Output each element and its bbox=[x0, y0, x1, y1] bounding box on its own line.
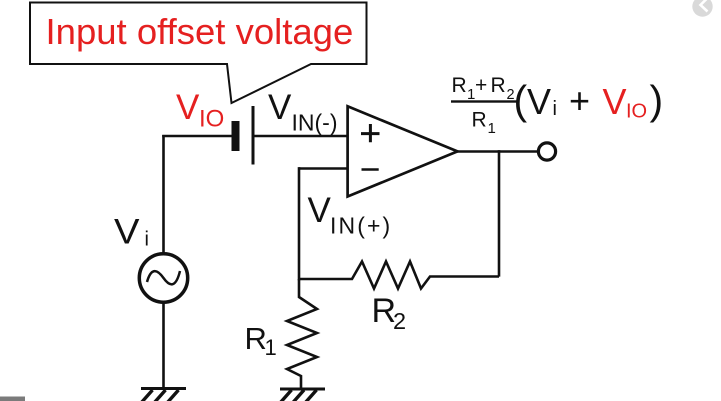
svg-text:+: + bbox=[569, 80, 590, 121]
svg-text:i: i bbox=[553, 98, 557, 120]
svg-text:): ) bbox=[650, 77, 664, 123]
ground under Vi bbox=[141, 389, 186, 401]
wire: left horizontal from Vi branch to battery bbox=[162, 135, 231, 138]
label R2 bbox=[372, 292, 407, 334]
svg-text:IO: IO bbox=[199, 106, 224, 133]
formula: (R1+R2)/R1 (Vi + VIO) bbox=[451, 74, 663, 137]
label VIN(-) bbox=[268, 88, 337, 136]
wire: left vertical down to Vi source bbox=[162, 135, 165, 253]
battery VIO (offset voltage source) bbox=[232, 106, 255, 165]
svg-text:i: i bbox=[145, 229, 149, 251]
wire: inverting input vertical down to node bbox=[298, 167, 301, 280]
wire: feedback vertical bbox=[498, 150, 501, 277]
svg-text:+: + bbox=[475, 74, 487, 97]
svg-text:R: R bbox=[472, 109, 487, 132]
label Vi bbox=[114, 213, 149, 252]
resistor R2 bbox=[299, 262, 499, 289]
svg-text:(: ( bbox=[514, 77, 528, 123]
svg-text:IN(-): IN(-) bbox=[292, 110, 338, 136]
label: Input offset voltage bbox=[46, 11, 354, 52]
wire: inverting input horizontal bbox=[299, 167, 347, 170]
ground under R1 bbox=[280, 389, 325, 401]
source Vi (sine source) bbox=[139, 254, 187, 302]
resistor R1 bbox=[287, 279, 317, 389]
svg-text:Input offset voltage: Input offset voltage bbox=[46, 11, 354, 52]
svg-text:V: V bbox=[527, 81, 551, 122]
wire: op-amp output bbox=[457, 150, 538, 153]
svg-text:2: 2 bbox=[393, 308, 406, 334]
svg-text:1: 1 bbox=[265, 335, 277, 360]
speech bubble callout bbox=[30, 3, 367, 104]
svg-text:R: R bbox=[452, 74, 467, 97]
svg-text:IO: IO bbox=[626, 101, 647, 123]
op-amp U1 bbox=[348, 106, 458, 196]
svg-text:R: R bbox=[491, 74, 506, 97]
label VIO bbox=[176, 88, 224, 133]
svg-text:V: V bbox=[308, 191, 332, 230]
svg-text:V: V bbox=[268, 88, 292, 127]
nav button (top right) bbox=[692, 0, 712, 17]
svg-text:V: V bbox=[114, 213, 140, 252]
wire: battery to op-amp + input bbox=[255, 135, 348, 138]
svg-text:V: V bbox=[176, 88, 200, 127]
wire: Vi source to ground bbox=[162, 303, 165, 388]
output terminal bbox=[538, 143, 555, 160]
label R1 bbox=[245, 321, 277, 360]
svg-text:V: V bbox=[603, 81, 627, 122]
progress marker (bottom left) bbox=[0, 397, 25, 401]
label VIN(+) bbox=[308, 191, 393, 239]
svg-text:IN(+): IN(+) bbox=[330, 213, 392, 239]
svg-text:1: 1 bbox=[488, 120, 496, 137]
